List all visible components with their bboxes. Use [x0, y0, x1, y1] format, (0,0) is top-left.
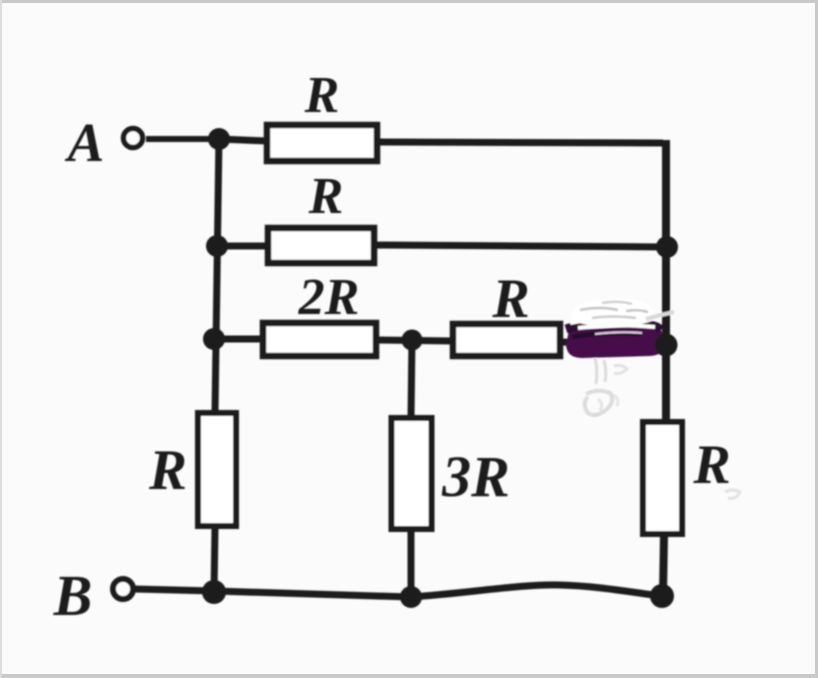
resistor R2 (second R)	[268, 228, 374, 263]
correction scribble (white blob with gray flecks) above purple mark	[570, 298, 674, 334]
resistor R1 (top R)	[267, 125, 377, 161]
wire left vertical bus	[214, 136, 219, 593]
resistor R4 (row3 R)	[453, 324, 560, 356]
svg-text:2R: 2R	[298, 269, 360, 326]
svg-text:A: A	[65, 112, 105, 173]
label R6 value 3R	[441, 444, 510, 509]
label R5 value R	[148, 439, 187, 502]
node n8 (bottom middle)	[400, 586, 422, 608]
label R3 value 2R	[298, 269, 360, 326]
node n9 (bottom right)	[650, 584, 674, 608]
label R4 value R	[491, 268, 529, 330]
resistor R6 (3R)	[392, 418, 432, 529]
svg-text:R: R	[491, 268, 529, 330]
terminal A	[124, 129, 143, 148]
label terminal B	[53, 563, 93, 628]
svg-text:R: R	[308, 168, 344, 225]
wire A lead	[146, 136, 224, 142]
wire row2 right	[374, 245, 668, 247]
svg-text:R: R	[304, 67, 340, 124]
resistor R3 (2R)	[263, 323, 376, 356]
label R7 value R	[692, 434, 730, 496]
node n1 (A junction)	[208, 128, 230, 150]
node n6 (right row3)	[655, 334, 678, 357]
node n4 (row3 middle)	[402, 330, 423, 351]
highlighter mark (purple) over row3 right wire	[566, 322, 664, 358]
node n3 (left row3)	[203, 328, 225, 350]
node n5 (right row2)	[656, 236, 678, 258]
wire row1 left	[219, 139, 268, 141]
svg-text:B: B	[53, 563, 93, 628]
wire bottom bus	[135, 585, 662, 597]
wire row1 right	[377, 142, 663, 143]
node n2 (left row2)	[206, 235, 228, 257]
wire right vertical bus	[663, 140, 666, 595]
wire middle vertical	[411, 338, 412, 597]
wire row2 left	[219, 243, 270, 250]
svg-text:3R: 3R	[441, 444, 510, 509]
resistor R5 (left vertical R)	[198, 413, 236, 526]
wire row3 mid	[376, 340, 454, 341]
faint pencil scribbles below purple mark	[585, 358, 740, 498]
node n7 (B junction)	[202, 580, 226, 604]
svg-text:R: R	[692, 434, 730, 496]
wire row3 right	[560, 342, 665, 345]
svg-text:R: R	[148, 439, 187, 502]
label R1 value R	[304, 67, 340, 124]
resistor R7 (right vertical R)	[643, 422, 682, 534]
label terminal A	[65, 112, 105, 173]
wire row3 left	[216, 336, 265, 343]
label R2 value R	[308, 168, 344, 225]
terminal B	[113, 579, 133, 599]
